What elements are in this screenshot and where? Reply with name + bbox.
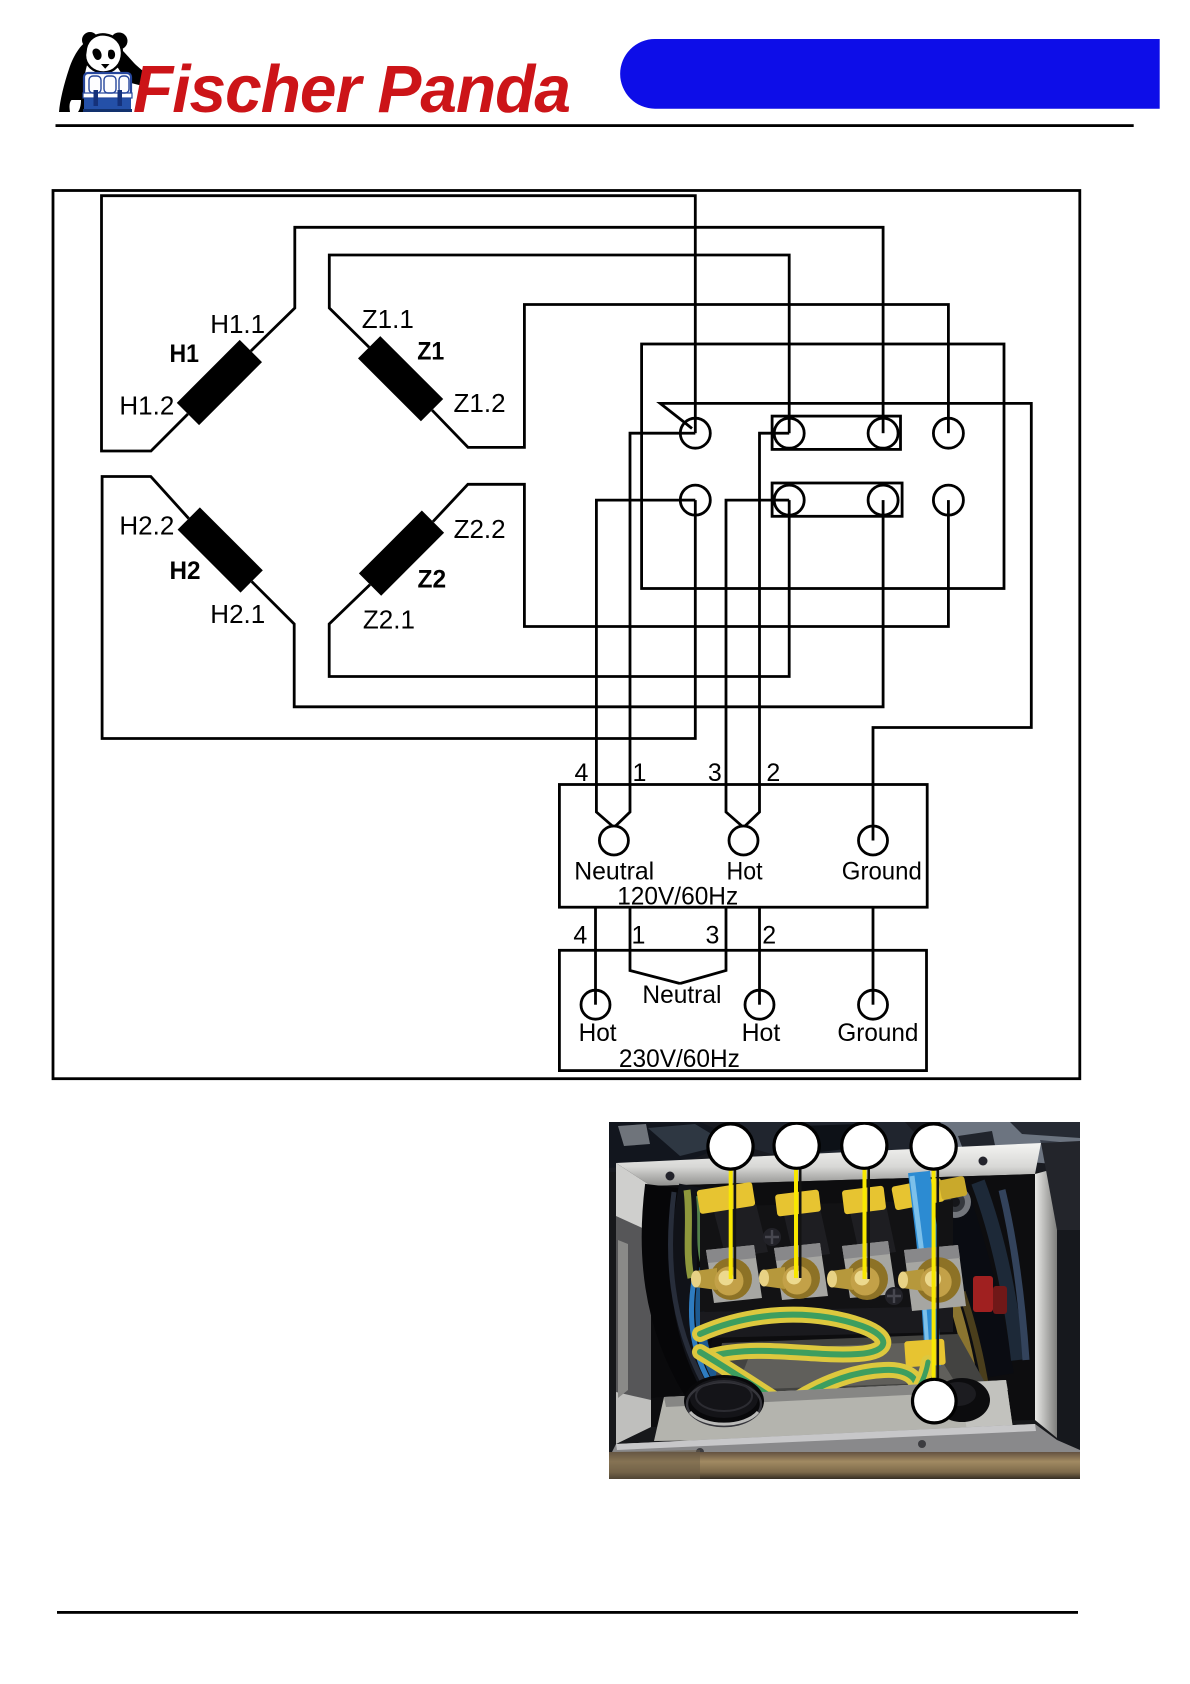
svg-text:2: 2 bbox=[762, 922, 776, 950]
230V hot right terminal bbox=[745, 990, 774, 1019]
photo left black cable bundle bbox=[651, 1188, 718, 1398]
wire Z1.1 to terminal A2 bbox=[329, 255, 789, 418]
svg-text:Neutral: Neutral bbox=[642, 981, 721, 1009]
120V ground terminal bbox=[859, 826, 888, 855]
svg-text:Z1.1: Z1.1 bbox=[362, 304, 414, 334]
terminal A1 bbox=[680, 418, 710, 448]
photo of generator terminal box bbox=[609, 1122, 1080, 1479]
svg-text:2: 2 bbox=[766, 759, 780, 787]
svg-text:Z2.1: Z2.1 bbox=[363, 605, 415, 635]
svg-text:Hot: Hot bbox=[742, 1019, 781, 1047]
svg-text:H2.2: H2.2 bbox=[119, 511, 174, 541]
photo brass studs bbox=[691, 1257, 961, 1303]
wire Z1.2 to terminal A4 bbox=[432, 305, 948, 448]
header rule bbox=[56, 124, 1134, 127]
photo bottom frame band bbox=[609, 1424, 1080, 1458]
callout line 3 bbox=[865, 1167, 869, 1279]
photo clamp blocks bbox=[706, 1241, 966, 1311]
terminal B2 bbox=[774, 485, 804, 515]
terminal B1 bbox=[680, 485, 710, 515]
wire 120V pin 1 to 230V neutral bbox=[630, 907, 680, 983]
photo blue cable at stud 4 bbox=[919, 1172, 929, 1260]
photo steel frame left strip bbox=[616, 1163, 651, 1444]
svg-text:H2: H2 bbox=[170, 557, 201, 585]
photo hex fitting upper right bbox=[939, 1186, 971, 1218]
terminal A4 bbox=[933, 418, 963, 448]
svg-text:3: 3 bbox=[708, 759, 722, 787]
svg-text:H1.1: H1.1 bbox=[210, 309, 265, 339]
svg-text:3: 3 bbox=[705, 922, 719, 950]
svg-text:Z1: Z1 bbox=[417, 338, 444, 366]
photo top engine background bbox=[609, 1122, 1080, 1172]
photo cable gland left bbox=[684, 1375, 764, 1427]
diagram outer border (frame) bbox=[53, 191, 1080, 1079]
wire H2.1 to terminal B3 bbox=[252, 515, 883, 707]
svg-text:H1: H1 bbox=[170, 340, 200, 368]
wire stub into 120V ground bbox=[872, 826, 875, 841]
callout circle 5 bbox=[913, 1379, 957, 1423]
winding H1 bbox=[119, 309, 265, 425]
120V terminal box bbox=[559, 785, 927, 908]
photo steel frame right strip bbox=[1035, 1168, 1057, 1438]
ground wire 120V to 230V ground bbox=[872, 907, 875, 990]
winding Z1 bbox=[358, 304, 506, 422]
winding H2 bbox=[119, 507, 265, 629]
bridge link row A bbox=[772, 416, 900, 449]
wire 120V pin 4 to 230V hot left bbox=[594, 907, 597, 990]
svg-text:Fischer Panda: Fischer Panda bbox=[133, 52, 570, 127]
wire stubs into terminals bbox=[680, 418, 948, 515]
callout line 1 bbox=[731, 1168, 735, 1279]
terminal block outline bbox=[642, 344, 1004, 589]
photo floor plate bbox=[654, 1380, 1014, 1441]
terminal B3 bbox=[868, 485, 898, 515]
wire terminal A2 to 120V pin 2 bbox=[745, 433, 775, 826]
svg-text:Z1.2: Z1.2 bbox=[454, 388, 506, 418]
230V ground terminal bbox=[859, 990, 888, 1019]
wire H1.1 to terminal A3 bbox=[251, 227, 883, 418]
svg-text:Neutral: Neutral bbox=[574, 857, 654, 885]
photo screw holes top strip bbox=[666, 1172, 675, 1181]
photo back panel bbox=[712, 1334, 988, 1396]
svg-text:H2.1: H2.1 bbox=[210, 599, 265, 629]
svg-text:Ground: Ground bbox=[837, 1019, 918, 1047]
wire stubs into 230V terminals bbox=[596, 990, 874, 1005]
callout circle 4 bbox=[911, 1124, 956, 1169]
photo insulator posts bbox=[714, 1204, 768, 1258]
photo ground wire lower loop bbox=[700, 1352, 917, 1423]
callout line 2 bbox=[796, 1167, 800, 1278]
120V hot terminal bbox=[729, 826, 758, 855]
svg-text:1: 1 bbox=[633, 759, 647, 787]
wire terminal B1 to 120V pin 4 bbox=[596, 500, 680, 826]
photo right cable bundle bbox=[948, 1186, 996, 1376]
photo bottom tan bar bbox=[609, 1452, 1080, 1479]
svg-text:230V/60Hz: 230V/60Hz bbox=[619, 1045, 740, 1073]
photo marker tags bbox=[696, 1182, 755, 1214]
wire 120V pin 3 to 230V neutral bbox=[680, 907, 726, 983]
photo right outer dark area bbox=[1057, 1143, 1080, 1460]
svg-text:Z2.2: Z2.2 bbox=[454, 514, 506, 544]
230V hot left terminal bbox=[581, 990, 610, 1019]
svg-text:4: 4 bbox=[573, 922, 587, 950]
wire H2.2 to terminal B1 bbox=[102, 477, 695, 739]
callout circle 2 bbox=[774, 1123, 819, 1168]
svg-text:1: 1 bbox=[631, 922, 645, 950]
photo terminal rail bbox=[700, 1200, 953, 1312]
photo steel frame top strip bbox=[616, 1143, 1041, 1186]
wire Z2.2 to terminal B4 bbox=[433, 484, 948, 626]
photo cable gland right bbox=[934, 1378, 990, 1422]
logo Fischer Panda bbox=[59, 32, 570, 127]
blue title banner bbox=[620, 39, 1160, 109]
svg-text:Ground: Ground bbox=[842, 857, 922, 885]
callout circle 3 bbox=[842, 1123, 887, 1168]
wire 120V pin 2 to 230V hot right bbox=[758, 907, 761, 990]
svg-text:Z2: Z2 bbox=[418, 566, 447, 594]
wire Z2.1 to terminal B2 bbox=[329, 515, 789, 676]
callout line 4 bbox=[934, 1168, 938, 1378]
terminal A2 bbox=[774, 418, 804, 448]
ground wire terminal A1 to 120V ground bbox=[660, 403, 1031, 826]
svg-text:4: 4 bbox=[575, 759, 589, 787]
svg-text:Hot: Hot bbox=[727, 857, 763, 885]
terminal A3 bbox=[868, 418, 898, 448]
bridge link row B bbox=[772, 483, 902, 516]
120V neutral terminal bbox=[599, 826, 628, 855]
winding Z2 bbox=[359, 510, 506, 634]
photo cavity bbox=[651, 1174, 1035, 1427]
svg-text:120V/60Hz: 120V/60Hz bbox=[617, 883, 738, 911]
photo screws on rail bbox=[763, 1228, 781, 1246]
callout circle 1 bbox=[708, 1124, 753, 1169]
footer rule bbox=[57, 1611, 1078, 1614]
terminal B4 bbox=[933, 485, 963, 515]
svg-text:H1.2: H1.2 bbox=[119, 391, 174, 421]
photo ground wire upper S bbox=[700, 1315, 928, 1424]
wire terminal A1 to 120V pin 1 bbox=[615, 433, 680, 826]
svg-text:Hot: Hot bbox=[579, 1019, 617, 1047]
230V terminal box bbox=[559, 950, 926, 1070]
wire H1.2 to terminal A1 bbox=[102, 196, 696, 451]
wire terminal B2 to 120V pin 3 bbox=[726, 500, 774, 826]
